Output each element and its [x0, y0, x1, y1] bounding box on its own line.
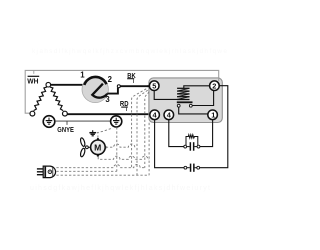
node fixed contact right	[189, 104, 192, 107]
ground protective earth circle 1	[43, 116, 55, 128]
switch thermostat rotary body	[82, 76, 108, 102]
wire BK into terminal 5 (over box edge)	[148, 85, 150, 87]
ground chassis earth at motor	[89, 130, 96, 136]
resistor heater left	[34, 87, 47, 111]
wire dashed riser R4	[145, 92, 149, 168]
label GNYE	[57, 121, 74, 134]
wire dashed plug bottom H4	[56, 174, 149, 176]
wire dashed chassis earth link	[97, 128, 112, 132]
dashed harness wires	[56, 89, 149, 175]
node heater right terminal	[63, 111, 68, 116]
wire BK from contact to relay terminal 5	[120, 85, 150, 87]
node run capacitor right	[197, 145, 200, 148]
node series capacitor right	[197, 166, 200, 169]
resistor R parallel branch	[186, 135, 198, 145]
plug X1	[37, 166, 56, 178]
ground protective earth circle 2	[111, 114, 122, 127]
wire dashed motor top stub	[97, 133, 99, 138]
resistor heater right	[50, 87, 63, 111]
svg-text:uihsdgfkawjheflkjhqwlekfjhlaks: uihsdgfkawjheflkjhqwlekfjhlaksjdhfweiury…	[30, 185, 210, 192]
coil overload heater inside relay	[177, 88, 189, 99]
node fixed contact left	[177, 104, 180, 107]
wire terminal 4b down to run capacitor	[169, 119, 184, 146]
wire dashed motor bottom H1	[98, 156, 149, 159]
wire dashed riser R2	[132, 89, 147, 168]
label WH	[27, 70, 39, 85]
svg-text:WH: WH	[27, 76, 38, 85]
contact arm bar	[177, 101, 193, 103]
label RD	[120, 99, 129, 111]
switch wiper	[92, 84, 107, 98]
wire terminal 4a down to series capacitor	[155, 119, 184, 167]
fan blades	[80, 137, 86, 157]
capacitor series bottom	[187, 164, 197, 172]
wire terminal 2 right down to series capacitor	[200, 86, 228, 168]
wire right contact to terminal 2	[192, 91, 213, 106]
wire dashed riser R3	[137, 90, 148, 175]
wire WH drop onto terminal 2 (over box)	[218, 78, 220, 81]
svg-text:GNYE: GNYE	[57, 125, 74, 134]
wire terminal 1 down to run capacitor	[200, 120, 213, 147]
wire switch position 3 to contact node	[107, 88, 118, 94]
wire RD from heater right terminal to relay terminal 4	[68, 113, 151, 115]
svg-text:1: 1	[211, 111, 215, 120]
motor M1 fan motor	[91, 138, 107, 157]
wire left contact to terminal 1	[179, 107, 208, 114]
wire terminal5 to contact arm	[154, 90, 177, 99]
svg-text:kjahsdlfkjhwqelkfjhzxcvmbnqwle: kjahsdlfkjhwqelkfjhzxcvmbnqwlekjrhlaskjd…	[32, 48, 227, 55]
svg-text:2: 2	[108, 75, 113, 84]
terminal 4 b	[164, 110, 174, 120]
wire dashed plug top H2	[56, 164, 144, 167]
capacitor run (parallel with resistor)	[187, 142, 197, 151]
wire dashed riser R5 from relay box corner	[148, 123, 150, 175]
svg-text:3: 3	[105, 95, 110, 104]
node run capacitor left	[184, 145, 187, 148]
wire dashed motor right H0	[106, 144, 135, 147]
wire WH net (gray loop from left frame to relay terminal 2)	[25, 70, 219, 113]
relay box U1	[149, 78, 222, 123]
svg-text:1: 1	[80, 70, 85, 79]
wire dashed plug middle H3	[56, 170, 116, 172]
svg-text:M: M	[94, 142, 101, 152]
node open contact circle after switch	[117, 85, 120, 88]
wire apex to switch position 1	[51, 84, 83, 86]
switch top arc contact	[84, 77, 106, 85]
terminal 2	[210, 81, 220, 91]
node heater left terminal	[30, 111, 35, 116]
svg-text:5: 5	[152, 82, 156, 91]
wire GNYE from earth1 to earth2	[55, 120, 111, 122]
label BK	[127, 71, 136, 83]
node series capacitor left	[184, 166, 187, 169]
svg-text:2: 2	[212, 82, 216, 91]
wire coil top to terminal 2	[184, 86, 210, 89]
terminal 1	[208, 110, 218, 120]
terminal 5	[149, 81, 159, 91]
wire dashed riser R1 earth2	[116, 127, 118, 171]
terminal 4 a	[150, 110, 160, 120]
node apex terminal of heaters	[46, 82, 51, 87]
